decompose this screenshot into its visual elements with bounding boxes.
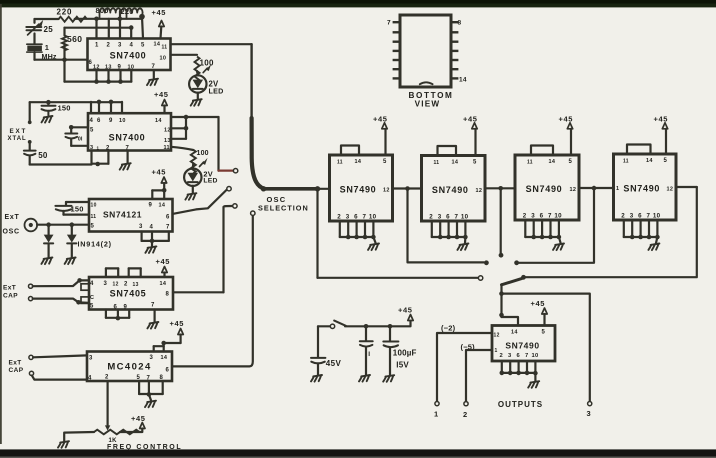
wire U4 top loop 1 (106, 268, 118, 277)
svg-text:6: 6 (540, 213, 544, 220)
node junction U3 +45 (162, 188, 167, 193)
wire top rail from trimmer to R220 (35, 18, 59, 20)
wire U10 pin14 L (502, 317, 519, 326)
svg-text:+45: +45 (156, 257, 171, 266)
svg-text:4: 4 (130, 43, 134, 49)
svg-text:SN7490: SN7490 (526, 184, 563, 194)
IC package bottom view outline (393, 15, 459, 87)
U2 pin label left 5 (90, 128, 94, 134)
svg-text:SN7400: SN7400 (109, 133, 146, 143)
ground diode D4 (65, 258, 76, 265)
svg-text:25: 25 (44, 25, 54, 34)
node EXT CAP terminal A1 (29, 284, 33, 288)
U4 pin label right 8 (166, 292, 170, 298)
ground U7 (457, 244, 468, 251)
svg-text:12: 12 (570, 187, 577, 193)
wire chip1 to chip2 (393, 187, 422, 189)
wire U8 bottom pins bus (523, 213, 562, 240)
svg-text:OUTPUTS: OUTPUTS (498, 400, 543, 409)
svg-text:+45: +45 (373, 114, 388, 123)
wire junction A drop (408, 189, 484, 263)
power +45 supply H (rail) (398, 306, 413, 321)
svg-text:SN7490: SN7490 (340, 185, 377, 195)
svg-text:7: 7 (387, 20, 391, 27)
U5 pin labels bottom (88, 375, 164, 382)
U6 pin label 12 (383, 188, 390, 194)
svg-text:14: 14 (646, 158, 653, 164)
resistor R1 220 (57, 8, 88, 22)
wire wiper to divider chain (263, 187, 330, 191)
svg-text:7: 7 (363, 214, 367, 221)
svg-text:12: 12 (93, 65, 100, 71)
svg-text:3: 3 (104, 281, 108, 287)
wire R6 to LED2 (192, 163, 195, 168)
power +45 supply chip3 (559, 114, 574, 155)
wire U1 pin5 lead (142, 17, 143, 39)
U4 pin labels bottom (114, 303, 156, 311)
node range contact 2L (478, 276, 482, 280)
wire U8 pins 11-14 jumper (531, 146, 553, 156)
svg-text:50: 50 (38, 151, 48, 160)
op-amp U4 SN7405 hex inverter (89, 277, 173, 310)
wire U9 bus to ground (656, 237, 657, 243)
wire U1 pin12 lead (94, 70, 99, 84)
ground LED2 (185, 193, 196, 200)
svg-text:7: 7 (166, 225, 170, 231)
wire U1 pin10 output (171, 54, 198, 56)
wire U2 pin4 lead (90, 102, 92, 113)
svg-text:2: 2 (337, 214, 341, 221)
wire 560 top lead (63, 28, 65, 36)
wire U5 top loop (154, 346, 164, 351)
wire U2 pin10 lead (121, 102, 123, 113)
power +45 supply D (U4 pin14) (156, 257, 171, 277)
wire C8 top lead (389, 326, 391, 340)
label IN914(2) (78, 240, 112, 249)
label OUTPUTS (498, 400, 543, 409)
wire EXT CAP A1 to U4 pin4 (33, 278, 89, 286)
wire U2 pin11 to R6 (171, 147, 193, 150)
wire U3 pin6 to selector contact 2 (173, 190, 227, 214)
wire U4 top loop 2 (129, 268, 141, 277)
power +45 supply chip2 (463, 114, 478, 155)
node range contact 1C (499, 253, 504, 258)
svg-text:6: 6 (517, 353, 521, 359)
svg-text:4: 4 (150, 225, 154, 231)
wire EXT OSC to U3 pin5 (37, 224, 89, 226)
node junction 150 cap (46, 100, 51, 105)
svg-text:LED: LED (209, 87, 224, 96)
svg-text:1: 1 (45, 43, 49, 52)
svg-text:10: 10 (554, 213, 562, 220)
svg-text:+45: +45 (154, 90, 169, 99)
U3 pin labels top-right (149, 203, 171, 221)
svg-text:4: 4 (90, 118, 94, 124)
wire U2 pins3-2 loop (92, 151, 109, 167)
node junction pin4 rail2 (129, 25, 134, 30)
wire pot left to ground (64, 432, 94, 441)
wire selector feed vertical (250, 44, 252, 122)
node EXT CAP terminal A2 (29, 297, 33, 301)
svg-text:12: 12 (667, 187, 674, 193)
svg-text:SN7490: SN7490 (432, 185, 469, 195)
wire chip2 to chip3 (485, 187, 515, 189)
wire U2 pin7 lead (126, 151, 128, 163)
svg-text:EXT: EXT (10, 128, 28, 135)
svg-text:VIEW: VIEW (415, 100, 441, 109)
op-amp U2 SN7400 crystal osc (88, 113, 171, 150)
node selector contact 3 (233, 204, 237, 208)
wire U10 pin12 to output 1 (437, 333, 492, 402)
svg-text:11: 11 (623, 159, 629, 165)
svg-text:5: 5 (91, 224, 95, 230)
ground U2 pin7 (120, 163, 131, 170)
svg-text:+45: +45 (463, 114, 478, 123)
label (-2) (441, 324, 456, 333)
op-amp U1 SN7400 quad gate (88, 39, 171, 71)
wire U2 pin12 lead (171, 127, 186, 129)
svg-text:100µF: 100µF (393, 349, 417, 358)
U6 pin labels top (337, 159, 387, 166)
svg-text:9: 9 (118, 65, 122, 71)
svg-text:7: 7 (525, 353, 529, 359)
svg-text:ExT: ExT (5, 214, 20, 221)
svg-text:SELECTION: SELECTION (258, 204, 309, 213)
capacitor C3 50 (24, 151, 48, 160)
wire U10 bottom bus (500, 361, 538, 375)
power +45 supply F (pot) (131, 414, 146, 429)
wire C6 to ground (317, 363, 319, 374)
op-amp U3 SN74121 one-shot (89, 199, 173, 232)
wire selector drop xtal osc (217, 117, 219, 171)
svg-text:14: 14 (452, 160, 459, 166)
svg-text:9: 9 (109, 118, 113, 124)
svg-text:2: 2 (621, 213, 625, 220)
label (-5) (461, 343, 476, 352)
svg-text:+45: +45 (152, 8, 167, 17)
U4 pin labels top (90, 281, 167, 288)
wire U4 pin8 output (173, 291, 224, 293)
U9 pin label 12 (667, 187, 674, 193)
svg-text:3: 3 (587, 409, 591, 418)
node EXT OSC terminal (25, 219, 38, 232)
capacitor C7 .1 (360, 341, 373, 358)
wire U10 feed vertical (500, 284, 502, 317)
wire 560 bottom lead (63, 44, 65, 60)
wire U1 pin3 lead (119, 11, 121, 39)
U3 pin labels bottom (139, 224, 170, 231)
svg-text:MC4024: MC4024 (107, 362, 151, 373)
svg-text:FREQ CONTROL: FREQ CONTROL (107, 444, 182, 451)
svg-text:14: 14 (155, 118, 162, 124)
resistor R3 220 (coil) (121, 7, 143, 17)
svg-text:9: 9 (124, 305, 128, 311)
svg-text:1: 1 (495, 348, 498, 354)
power +45 supply C (U3 pin14) (152, 168, 167, 191)
svg-text:3: 3 (118, 43, 122, 49)
wire selector drop RC osc (224, 206, 232, 292)
capacitor C2 150 (42, 102, 71, 115)
wire U5 pin6 output (172, 215, 253, 366)
wire +45E to U5 pin14 (161, 341, 180, 352)
svg-text:2: 2 (107, 43, 111, 49)
wire U10 bus to ground (534, 373, 536, 381)
wire EXT XTAL lower lead (28, 140, 32, 150)
svg-text:11: 11 (162, 45, 168, 51)
U7 pin labels top (434, 160, 478, 167)
node output 3 terminal (588, 402, 592, 406)
svg-text:11: 11 (434, 160, 440, 166)
ground C7 (359, 375, 370, 382)
svg-text:3: 3 (630, 213, 634, 220)
svg-text:CAP: CAP (3, 293, 18, 300)
wire U1 bottom bus (65, 80, 132, 82)
svg-text:6: 6 (89, 60, 93, 66)
svg-text:SN74121: SN74121 (103, 210, 142, 220)
wire U9 pins 11-14 jumper (627, 145, 651, 155)
svg-text:12: 12 (476, 188, 483, 194)
svg-text:100: 100 (200, 59, 214, 68)
svg-text:1: 1 (95, 43, 99, 49)
wire D3 top lead (47, 225, 49, 235)
wire U7 bus to ground (464, 237, 467, 243)
node junction A (chip1-2) (405, 186, 410, 191)
wire U6 pins 11-14 jumper (341, 146, 359, 156)
svg-text:5: 5 (542, 330, 546, 336)
wire crystal bottom lead (33, 52, 35, 60)
wire feedback down from node (63, 60, 65, 82)
svg-text:CAP: CAP (9, 367, 24, 374)
U2 pin labels top (90, 118, 163, 124)
capacitor C8 100uF (383, 342, 416, 370)
svg-text:13: 13 (133, 282, 139, 288)
wire rail y19 R220 to pin5 node (75, 18, 142, 20)
svg-text:I5V: I5V (396, 361, 409, 370)
wire U1 pin9 lead (118, 70, 123, 84)
svg-text:+45: +45 (559, 114, 574, 123)
svg-text:8: 8 (160, 375, 164, 381)
op-amp U9 SN7490 decade divider (614, 154, 677, 220)
wire U4 pin7 lead (154, 310, 156, 322)
svg-text:3: 3 (508, 353, 512, 359)
wire U4 bottom loop (106, 310, 129, 321)
node junction out3 tap (499, 291, 504, 296)
power +45 supply chip1 (373, 114, 388, 155)
ground C2 150 (42, 116, 53, 123)
node junction U10 pin14 tap (499, 313, 504, 318)
svg-text:3: 3 (438, 214, 442, 221)
svg-text:45V: 45V (326, 359, 342, 368)
node range contact 2R (521, 275, 526, 280)
wire U2 pin9 lead (109, 100, 114, 114)
svg-text:150: 150 (71, 205, 84, 214)
node output 1 terminal (435, 402, 439, 406)
U3 pin labels left (91, 203, 97, 230)
U9 pin label 1 (616, 186, 619, 192)
U1 pin labels top (95, 42, 167, 51)
U8 pin labels top (527, 159, 573, 166)
svg-text:0I: 0I (78, 137, 83, 143)
wire U1 pin4 lead (130, 28, 132, 39)
node junction B (chip2-3) (498, 186, 503, 191)
svg-text:9: 9 (149, 203, 153, 209)
wire U1 pin13 lead (106, 70, 111, 84)
wire U8 bus to ground (559, 237, 561, 243)
wire U2 pin13 lead (171, 138, 186, 140)
diode D4 IN914 (67, 235, 77, 244)
wire C3 to bottom rail (29, 156, 31, 165)
svg-text:560: 560 (67, 34, 82, 44)
node pot wiper arrowhead (105, 425, 110, 430)
U2 pin labels right (164, 128, 171, 145)
svg-text:5: 5 (141, 43, 145, 49)
wire EXT CAP B2 to U5 pin4 (32, 376, 87, 380)
wire U3 pins9-14 loop (152, 190, 164, 199)
wire chip3 to chip4 (579, 187, 614, 189)
node junction chain input (315, 186, 320, 191)
U9 pin labels top (623, 158, 668, 165)
wire LED1 to ground (197, 93, 199, 99)
node EXT CAP label B (9, 360, 24, 375)
svg-text:+45: +45 (398, 306, 413, 315)
wire junction B drop (500, 188, 502, 252)
node junction pin1 rail (94, 17, 99, 22)
LED D1 2V (189, 64, 223, 96)
node junction diode D3 (46, 222, 51, 227)
svg-text:7: 7 (548, 213, 552, 220)
svg-text:OSC: OSC (3, 229, 20, 236)
op-amp U7 SN7490 decade divider (422, 156, 486, 222)
svg-text:3: 3 (531, 213, 535, 220)
svg-text:C: C (90, 295, 94, 301)
svg-text:5: 5 (137, 375, 141, 381)
svg-text:3: 3 (150, 355, 154, 361)
U4 left tab upper (81, 284, 89, 290)
wire to selector contact 1 (219, 170, 234, 172)
wire U5 pin2 to pot wiper (106, 381, 108, 427)
node power switch contact L (330, 324, 334, 328)
svg-text:4: 4 (88, 376, 92, 382)
ground U4 pin7 (147, 322, 158, 329)
svg-text:10: 10 (369, 214, 377, 221)
svg-text:220: 220 (57, 8, 73, 17)
svg-text:+45: +45 (170, 319, 185, 328)
svg-text:(−2): (−2) (441, 324, 456, 333)
svg-text:12: 12 (383, 188, 390, 194)
capacitor C6 45V battery (311, 358, 341, 368)
border left edge (0, 4, 2, 444)
power +45 supply chip4 (654, 114, 669, 154)
svg-text:5: 5 (473, 160, 477, 166)
node range contact 1L (484, 260, 489, 265)
wire selector wiper arm (252, 118, 267, 192)
wire pins 12-13 tie (184, 117, 189, 139)
border top bar (0, 0, 716, 7)
svg-text:1: 1 (616, 186, 619, 192)
svg-text:6: 6 (354, 214, 358, 221)
ground C6 (311, 375, 322, 382)
svg-text:I: I (368, 351, 370, 358)
bottom view pin labels (387, 20, 467, 84)
U1 pin labels right-left (89, 56, 167, 67)
wire U7 bottom pins bus (429, 214, 468, 240)
svg-text:2: 2 (500, 353, 504, 359)
svg-text:LED: LED (203, 178, 217, 185)
wire EXT CAP A2 to U4 pin5 (33, 299, 89, 305)
capacitor C5 150 on U3 (55, 202, 89, 215)
wire U6 bottom pins bus (337, 214, 376, 240)
wire range switch arm (502, 278, 523, 284)
svg-text:13: 13 (164, 138, 171, 144)
node EXT XTAL label (8, 128, 28, 142)
LED D2 2V (184, 158, 218, 186)
U10 pin labels bottom (500, 353, 539, 359)
crystal Y1 1MHz (27, 43, 57, 61)
ground U1 pin7 (147, 79, 158, 86)
wire LED2 to ground (192, 186, 194, 193)
wire C7 to ground (365, 347, 367, 375)
wire U1 pin11 output to selector (171, 43, 252, 45)
U5 pin labels top (89, 355, 168, 362)
svg-text:14: 14 (549, 159, 556, 165)
node junction filter cap 1 (364, 324, 369, 329)
ground pot (58, 441, 69, 448)
ground U10 (528, 381, 539, 388)
svg-text:14: 14 (511, 330, 518, 336)
op-amp U6 SN7490 decade divider (330, 155, 393, 221)
svg-text:11: 11 (164, 145, 170, 151)
wire C8 to ground (389, 347, 391, 375)
U5 pin label right 6 (166, 368, 170, 374)
svg-text:8: 8 (458, 20, 462, 27)
wire C7 top lead (365, 326, 367, 340)
svg-text:14: 14 (161, 355, 168, 361)
wire bus2 left segment (318, 277, 479, 279)
ground C8 (383, 375, 394, 382)
svg-text:5: 5 (664, 158, 668, 164)
svg-text:12: 12 (164, 128, 171, 134)
wire U1 pin10b lead (130, 70, 132, 82)
wire trimmer to crystal (33, 34, 35, 44)
capacitor C4 .01 on U2 left (65, 125, 88, 146)
svg-text:800: 800 (96, 6, 109, 15)
svg-text:6: 6 (97, 118, 101, 124)
U2 pin labels bottom (90, 145, 170, 152)
ground U5 (145, 401, 156, 408)
border bottom bar (0, 449, 716, 458)
ground U6 (368, 244, 379, 251)
power +45 supply A (U1 pin14) (152, 8, 167, 38)
wire output 3 run (502, 294, 590, 402)
node selector contact 1 (233, 169, 237, 173)
svg-text:SN7490: SN7490 (505, 341, 539, 351)
wire switch to +45 riser (345, 321, 411, 327)
svg-text:10: 10 (653, 213, 661, 220)
ground U8 (553, 244, 564, 251)
U10 pin labels (494, 330, 546, 355)
svg-text:2: 2 (105, 375, 109, 381)
svg-text:100: 100 (197, 150, 209, 157)
wire U5 loop to ground (149, 394, 151, 400)
op-amp U10 SN7490 output divider (492, 326, 555, 362)
node junction C (chip3-4) (592, 186, 597, 191)
node EXT CAP terminal B2 (29, 371, 33, 375)
label BOTTOM VIEW (409, 91, 454, 109)
svg-text:ExT: ExT (9, 360, 22, 367)
svg-text:6: 6 (166, 215, 170, 221)
power +45 supply B (U2 pin14) (154, 90, 169, 113)
wire D4 to ground (71, 244, 73, 258)
